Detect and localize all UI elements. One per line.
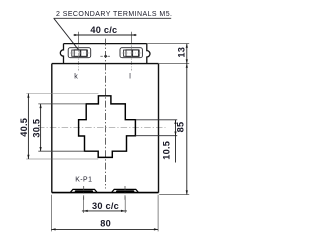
terminal left screw slot: [74, 50, 80, 57]
foot right slot: [116, 190, 134, 192]
dimension 30.5 extension bottom: [38, 150, 84, 152]
dimension 40.5 line: [27, 94, 29, 160]
svg-text:k: k: [74, 73, 78, 80]
center mark diamond: [104, 54, 107, 58]
main horizontal centerline: [38, 126, 166, 128]
dimension 13 line: [186, 44, 188, 64]
dimension 13 extension top: [147, 43, 189, 45]
housing right edge: [147, 44, 150, 64]
right arm slot lines: [135, 119, 177, 121]
terminal left inner: [72, 50, 88, 56]
svg-text:30 c/c: 30 c/c: [92, 201, 119, 211]
terminal left outer: [68, 48, 91, 58]
svg-text:2 SECONDARY TERMINALS M5.: 2 SECONDARY TERMINALS M5.: [56, 11, 172, 18]
dimension 10.5 line: [175, 120, 177, 163]
svg-text:10.5: 10.5: [162, 141, 172, 160]
dimension 30.5 line: [40, 104, 42, 151]
leader line to terminal: [54, 18, 79, 50]
leader underline: [54, 17, 172, 19]
terminal right screw slot: [126, 50, 132, 57]
dimension 85 extension bottom: [159, 194, 189, 196]
svg-text:40 c/c: 40 c/c: [90, 25, 117, 35]
housing top edge: [64, 43, 147, 45]
svg-text:30.5: 30.5: [31, 119, 41, 138]
dimension 40 c/c extension line right: [131, 32, 133, 44]
dimension 80 line: [51, 228, 158, 230]
main vertical centerline: [105, 39, 107, 189]
terminal right inner: [124, 50, 140, 56]
dimension 30 c/c line: [82, 210, 127, 212]
body base line: [52, 192, 159, 194]
svg-text:13: 13: [177, 47, 187, 58]
terminal left centerlines: [78, 45, 80, 70]
dimension 40 c/c extension line left: [77, 32, 79, 44]
dimension 40.5 extension bottom: [26, 158, 98, 160]
body right edge: [158, 64, 160, 193]
dimension 13 extension bottom: [159, 63, 189, 65]
body shoulder line: [52, 63, 159, 65]
terminal right outer: [120, 48, 142, 58]
foot left outline: [70, 189, 97, 192]
dimension 40 c/c line: [74, 34, 137, 36]
foot right outline: [112, 189, 139, 192]
foot left slot: [75, 190, 93, 192]
dimension 80 extension right: [157, 195, 159, 232]
svg-text:40.5: 40.5: [19, 118, 29, 137]
dimension 30.5 extension top: [38, 103, 86, 105]
svg-text:K-P1: K-P1: [75, 177, 92, 184]
svg-text:85: 85: [176, 122, 186, 133]
dimension 30 c/c extension right: [124, 197, 126, 214]
housing left edge: [60, 44, 63, 64]
terminal right centerlines: [131, 45, 133, 70]
svg-text:80: 80: [100, 218, 111, 228]
foot right centerline: [124, 186, 126, 200]
dimension 40.5 extension top: [26, 93, 98, 95]
dimension 30 c/c extension left: [83, 197, 85, 214]
foot left centerline: [83, 186, 85, 200]
dimension 80 extension left: [50, 195, 52, 232]
window cross cutout: [79, 96, 136, 158]
dimension 85 line: [186, 64, 188, 195]
body left edge: [51, 64, 53, 193]
